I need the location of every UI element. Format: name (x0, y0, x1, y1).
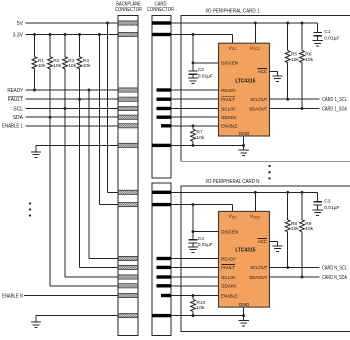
junction R1 top (33, 33, 36, 36)
junction R7 top (192, 124, 195, 127)
svg-text:FAULT: FAULT (221, 265, 235, 271)
backplane pin GND card N (118, 314, 138, 318)
IC UN LTC4315 I2C extender (219, 211, 270, 308)
card connector pin 3.3V card N (152, 203, 171, 206)
svg-text:10k: 10k (305, 57, 313, 63)
junction R5 top (286, 22, 289, 25)
junction DISCEN column top card 1 (192, 33, 195, 36)
wire SCLIN card N (171, 276, 219, 278)
wire ACC pin card 1 (270, 72, 278, 77)
svg-text:READY: READY (7, 88, 23, 94)
svg-text:LTC4315: LTC4315 (235, 78, 255, 84)
svg-text:SDAOUT: SDAOUT (249, 275, 267, 281)
resistor R5 10k pullup (285, 23, 299, 99)
wire SCLIN card 1 (171, 108, 219, 110)
wire 5V card N (171, 191, 318, 193)
svg-text:SDAOUT: SDAOUT (249, 106, 267, 112)
wire SCL rail (26, 108, 119, 110)
wire READY drop to card N (89, 90, 118, 259)
junction R8 top (286, 191, 289, 194)
backplane connector body (118, 16, 138, 336)
junction DISCEN card N (192, 230, 195, 233)
svg-text:10k: 10k (53, 63, 61, 69)
card connector pin SCL card 1 (157, 107, 172, 110)
wire ACC pin card N (270, 241, 278, 246)
card connector pin ENABLE card 1 (161, 124, 171, 127)
wire VCC2 pin card N (254, 192, 256, 211)
card connector pin FAULT card N (157, 266, 172, 269)
svg-text:SCLIN: SCLIN (221, 275, 235, 281)
label backplane connector (115, 2, 142, 14)
svg-text:3.3V: 3.3V (13, 32, 24, 38)
svg-text:5V: 5V (17, 21, 24, 27)
wire GND card 1 (171, 136, 244, 150)
card connector pin 5V card 1 (152, 21, 171, 24)
capacitor C4 0.01uF (189, 236, 213, 248)
svg-text:0.01µF: 0.01µF (324, 36, 339, 42)
svg-text:ENABLE: ENABLE (221, 124, 238, 130)
junction 3.3V drop (98, 33, 101, 36)
ground GND pin card 1 (238, 150, 248, 155)
ground C1 card 1 (313, 41, 323, 46)
resistor R10 10k ENABLE pulldown (191, 296, 206, 316)
junction DISCEN column top card N (192, 203, 195, 206)
backplane pin 5V card N (118, 190, 138, 194)
backplane pin FAULT card N (118, 265, 138, 269)
wire GND card N backplane side (36, 316, 118, 323)
wire FAULT drop to card N (80, 99, 119, 267)
svg-text:R9: R9 (305, 221, 312, 227)
junction R2 bottom (49, 116, 52, 119)
svg-text:CONNECTOR: CONNECTOR (115, 7, 142, 13)
svg-text:FAULT: FAULT (221, 97, 235, 103)
wire SDAIN card 1 (171, 116, 219, 118)
svg-text:10k: 10k (305, 226, 313, 232)
svg-text:10k: 10k (196, 135, 204, 141)
card connector pin READY card 1 (157, 88, 172, 91)
svg-text:SCLOUT: SCLOUT (250, 265, 267, 271)
wire SCL drop to card N (65, 109, 118, 278)
card connector pin SDA card 1 (157, 116, 172, 119)
junction R4 top (78, 33, 81, 36)
svg-text:GND: GND (239, 131, 250, 137)
svg-text:10k: 10k (196, 305, 204, 311)
svg-text:C2: C2 (198, 67, 205, 73)
wire READY card 1 (171, 89, 219, 91)
junction R9 top (301, 191, 304, 194)
ground C2 card 1 (188, 78, 198, 83)
wire READY card N (171, 258, 219, 260)
svg-text:R5: R5 (291, 52, 298, 58)
svg-text:ENABLE 1: ENABLE 1 (2, 124, 23, 130)
wire READY rail (26, 89, 119, 91)
svg-text:R8: R8 (291, 221, 298, 227)
svg-text:I/O PERIPHERAL CARD N: I/O PERIPHERAL CARD N (206, 179, 260, 185)
svg-text:SCL: SCL (13, 106, 23, 112)
card 1 boundary box (181, 16, 350, 162)
resistor R1 10k (32, 35, 46, 91)
svg-text:CARD 1_SCL: CARD 1_SCL (322, 97, 347, 103)
IC U1 LTC4315 I2C extender (219, 43, 270, 137)
wire GND card N (171, 307, 244, 320)
ground card N backplane side (31, 322, 41, 327)
wire 3.3V card 1 to VCC pin (171, 35, 233, 44)
card connector pin 3.3V card 1 (152, 33, 171, 36)
resistor R3 10k (63, 35, 77, 109)
resistor R9 10k pullup (300, 192, 314, 277)
svg-text:CONNECTOR: CONNECTOR (147, 7, 174, 13)
card connector body (card N) (152, 183, 171, 336)
backplane pin GND card 1 (118, 143, 138, 147)
card connector pin SCL card N (157, 275, 172, 278)
svg-text:SCLOUT: SCLOUT (250, 97, 267, 103)
junction R4 bottom (78, 98, 81, 101)
capacitor C2 0.01uF (189, 67, 213, 79)
ground GND pin card N (238, 320, 248, 325)
svg-text:READY: READY (221, 88, 236, 94)
svg-text:R10: R10 (196, 300, 205, 306)
junction GND pin card N (242, 314, 245, 317)
svg-text:CARD 1_SDA: CARD 1_SDA (322, 106, 348, 112)
svg-text:SCLIN: SCLIN (221, 106, 235, 112)
card connector pin SDA card N (157, 284, 172, 287)
junction VCC2 card N (254, 191, 257, 194)
svg-text:10k: 10k (83, 63, 91, 69)
card connector pin READY card N (157, 257, 172, 260)
svg-text:CARD N_SDA: CARD N_SDA (322, 275, 348, 281)
junction R6 bottom (301, 107, 304, 110)
wire SCLOUT card N (270, 266, 320, 268)
card N boundary box (181, 186, 350, 331)
label card connector (147, 2, 174, 14)
svg-text:10k: 10k (291, 57, 299, 63)
junction R2 top (49, 33, 52, 36)
ground ACC card 1 (272, 76, 282, 81)
junction R8 bottom (286, 266, 289, 269)
svg-text:I/O PERIPHERAL CARD 1: I/O PERIPHERAL CARD 1 (206, 9, 260, 15)
svg-text:ACC: ACC (258, 69, 268, 75)
svg-text:LTC4315: LTC4315 (235, 248, 255, 254)
wire 5V card 1 (171, 22, 318, 24)
svg-text:C1: C1 (324, 29, 331, 35)
svg-text:C4: C4 (198, 236, 205, 242)
resistor R8 10k pullup (285, 192, 299, 267)
junction VCC2 card 1 (254, 22, 257, 25)
svg-text:ENABLE N: ENABLE N (2, 293, 23, 299)
junction GND pin card 1 (242, 144, 245, 147)
svg-text:R7: R7 (196, 130, 203, 136)
wire ENABLE card 1 (171, 125, 219, 127)
svg-text:FAULT: FAULT (8, 97, 23, 103)
card connector pin ENABLE card N (161, 294, 171, 297)
svg-text:READY: READY (221, 256, 236, 262)
backplane pin READY card N (118, 256, 138, 260)
resistor R2 10k (48, 35, 62, 118)
card connector pin GND card N (152, 314, 171, 317)
junction R3 bottom (64, 107, 67, 110)
backplane pin SCL card N (118, 275, 138, 279)
junction DISCEN card 1 (192, 61, 195, 64)
svg-text:GND: GND (239, 302, 250, 308)
backplane pin FAULT card 1 (118, 97, 138, 101)
svg-text:SDA: SDA (13, 115, 24, 121)
wire DISCEN column card N (193, 205, 219, 240)
svg-text:0.01µF: 0.01µF (198, 242, 213, 248)
card connector pin GND card 1 (152, 144, 171, 147)
svg-text:R6: R6 (305, 52, 312, 58)
wire SDA drop to card N (50, 117, 118, 286)
wire FAULT rail (26, 98, 119, 100)
junction R7 bottom (192, 144, 195, 147)
wire SDA rail (26, 116, 119, 118)
svg-text:SDAIN: SDAIN (221, 115, 236, 121)
wire ENABLE 1 (26, 125, 119, 127)
wire SDAIN card N (171, 285, 219, 287)
ground C3 card N (313, 210, 323, 215)
backplane pin SDA card 1 (118, 115, 138, 119)
wire 5V rail (26, 22, 119, 24)
wire FAULT card N (171, 266, 219, 268)
svg-text:DISCEN: DISCEN (221, 229, 238, 235)
svg-text:ACC: ACC (258, 239, 268, 245)
svg-text:0.01µF: 0.01µF (324, 205, 339, 211)
wire 3.3V drop to card N (99, 35, 118, 205)
wire VCC2 pin card 1 (254, 23, 256, 43)
resistor R7 10k ENABLE pulldown (191, 126, 205, 146)
resistor R6 10k pullup (300, 23, 314, 109)
svg-text:10k: 10k (38, 63, 46, 69)
wire 3.3V rail (26, 34, 119, 36)
card connector pin FAULT card 1 (157, 98, 172, 101)
ground ACC card N (272, 246, 282, 251)
svg-text:10k: 10k (68, 63, 76, 69)
resistor R4 10k (77, 35, 91, 100)
backplane pin 3.3V card 1 (118, 32, 138, 36)
wire 3.3V card N to VCC pin (171, 205, 233, 212)
capacitor C3 0.01uF (313, 192, 339, 211)
svg-text:10k: 10k (291, 226, 299, 232)
backplane pin ENABLE card 1 (118, 124, 138, 128)
backplane pin ENABLE card N (118, 293, 138, 297)
junction R10 top (192, 294, 195, 297)
ground C4 card N (188, 247, 198, 252)
backplane pin 3.3V card N (118, 203, 138, 207)
ground card 1 backplane side (31, 152, 41, 157)
card connector body (card 1) (152, 16, 171, 179)
wire ENABLE card N (171, 295, 219, 297)
wire SCLOUT card 1 (270, 98, 320, 100)
svg-text:DISCEN: DISCEN (221, 61, 238, 67)
card connector pin 5V card N (152, 191, 171, 194)
wire 5V drop to card N (108, 23, 119, 192)
junction R10 bottom (192, 314, 195, 317)
backplane pin SCL card 1 (118, 106, 138, 110)
svg-text:0.01µF: 0.01µF (198, 73, 213, 79)
wire GND card 1 backplane side (36, 145, 118, 152)
svg-text:CARD N_SCL: CARD N_SCL (322, 265, 347, 271)
label FAULT (overbar) (8, 96, 23, 103)
junction READY drop (88, 89, 91, 92)
junction 5V drop (106, 22, 109, 25)
svg-text:SDAIN: SDAIN (221, 284, 236, 290)
svg-text:C3: C3 (324, 199, 331, 205)
wire SDAOUT card 1 (270, 108, 320, 110)
wire SDAOUT card N (270, 276, 320, 278)
backplane pin READY card 1 (118, 88, 138, 92)
ellipsis dots left (29, 202, 31, 216)
wire FAULT card 1 (171, 98, 219, 100)
capacitor C1 0.01uF (313, 23, 339, 42)
ellipsis dots right (between cards) (268, 165, 270, 180)
backplane pin 5V card 1 (118, 21, 138, 25)
junction R5 bottom (286, 98, 289, 101)
backplane pin SDA card N (118, 284, 138, 288)
junction R1 bottom (33, 89, 36, 92)
svg-text:ENABLE: ENABLE (221, 293, 238, 299)
wire DISCEN column card 1 (193, 35, 219, 72)
wire ENABLE N (24, 295, 118, 297)
junction R3 top (64, 33, 67, 36)
junction R6 top (301, 22, 304, 25)
junction R9 bottom (301, 276, 304, 279)
